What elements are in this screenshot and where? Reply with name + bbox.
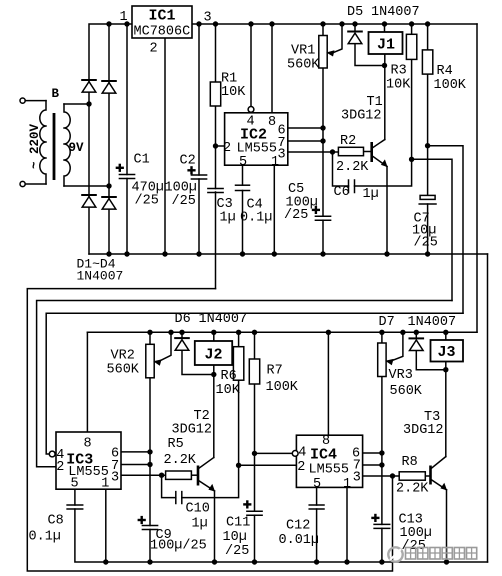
wire: IC3 pin1 to bottom rail [105, 489, 107, 562]
wire: C3 bottom down across ground to feedback run [215, 192, 217, 289]
svg-text:3: 3 [278, 148, 286, 163]
svg-text:/25: /25 [172, 194, 196, 209]
svg-text:2: 2 [150, 42, 158, 57]
potentiometer VR1 wiper arrow [326, 50, 334, 56]
svg-text:D6: D6 [175, 312, 191, 327]
svg-text:B: B [52, 87, 60, 101]
capacitor C1 470u/25 [119, 174, 134, 176]
wire: bridge right leg [108, 24, 110, 254]
wire: trigger row into IC4 pin2 [239, 464, 297, 466]
capacitor C2 100u/25 [191, 174, 206, 176]
wire: C5 bottom to ground [322, 220, 324, 254]
transistor T2 emitter lead with arrow [199, 481, 214, 491]
wire: IC2 pin4 lead [250, 24, 252, 106]
svg-text:560K: 560K [390, 384, 423, 399]
resistor R8 2.2K [399, 472, 425, 480]
wire: D5 cathode stub [354, 24, 356, 32]
wire: trigger run from R3/C6 node to right bus [412, 159, 452, 300]
svg-text:10µ: 10µ [223, 530, 247, 545]
potentiometer VR1 560K body [319, 36, 327, 69]
svg-text:R6: R6 [221, 369, 237, 384]
svg-text:/25: /25 [135, 194, 159, 209]
transformer B primary winding [40, 101, 46, 184]
resistor R5 2.2K [166, 471, 192, 479]
wire: C1 leg lower [126, 179, 128, 255]
transistor T1 emitter lead with arrow [373, 157, 387, 167]
wire: J2 bottom to T2 collector [213, 365, 215, 458]
svg-text:8: 8 [268, 115, 276, 130]
svg-text:2.2K: 2.2K [336, 160, 369, 175]
svg-text:10K: 10K [216, 383, 241, 398]
wire: transformer secondary top to bridge [64, 103, 89, 105]
svg-text:3: 3 [353, 471, 361, 486]
wire: VR1 wiper feed [331, 24, 342, 54]
wire: +V rail of bottom section [87, 331, 477, 333]
svg-text:10K: 10K [386, 78, 411, 93]
svg-text:R3: R3 [391, 64, 407, 79]
svg-text:1N4007: 1N4007 [371, 5, 420, 20]
timer IC3 LM555 box [56, 432, 121, 489]
wire: T2 emitter to bottom rail [214, 491, 216, 562]
svg-text:/25: /25 [284, 208, 308, 223]
wire: D6 cathode stub [181, 332, 183, 338]
wire: IC4 pin3 output to R8 [363, 475, 400, 477]
IC3 pin4 reset bubble [49, 451, 55, 457]
wire: VR3 top lead [381, 332, 383, 343]
transistor T3 3DG12 base bar [429, 466, 432, 485]
wire: C6 branch from pin3 node [333, 152, 349, 186]
wire: VR3 wiper feed [390, 332, 403, 361]
relay J1 box [369, 32, 403, 54]
relay J2 box [195, 341, 232, 365]
wire: IC3 pin5 lead to C8 [74, 489, 76, 505]
wire: C10 right plate up to R6 trigger node [182, 465, 239, 497]
svg-text:J2: J2 [205, 346, 223, 363]
wire: R3 top lead [411, 24, 413, 34]
svg-text:R4: R4 [437, 64, 453, 79]
wire: IC3 pin8 lead [86, 332, 88, 432]
transistor T1 3DG12 base bar [370, 142, 373, 162]
wire: J1 coil top lead [384, 24, 386, 32]
svg-text:~ 220V: ~ 220V [28, 123, 42, 169]
svg-text:1µ: 1µ [363, 187, 379, 202]
svg-text:IC1: IC1 [149, 8, 176, 25]
svg-text:IC4: IC4 [310, 447, 337, 464]
wire: feedback loop left run [27, 289, 392, 571]
svg-text:1N4007: 1N4007 [199, 312, 248, 327]
watermark text (CJK approximation) [406, 548, 416, 560]
junction dots (bottom section) [147, 330, 152, 335]
wire: right ground bus [487, 254, 489, 562]
svg-text:1N4007: 1N4007 [77, 269, 124, 284]
svg-text:/25: /25 [414, 236, 438, 251]
wire: D7 cathode stub [415, 332, 417, 338]
wire: R8 to T3 base stub [425, 475, 429, 477]
wire: IC4 pin4 row [255, 452, 293, 454]
svg-text:4: 4 [298, 446, 306, 461]
wire: R7 bottom through pin4 row to C11 [254, 384, 256, 511]
wire: VR1 top lead [322, 24, 324, 36]
svg-text:3DG12: 3DG12 [172, 423, 213, 438]
potentiometer VR3 wiper arrow [385, 359, 393, 365]
wire: C13 bottom to bottom rail [381, 528, 383, 562]
transformer B primary terminal bottom [20, 181, 25, 186]
op-amp/timer IC2 LM555 box [225, 113, 288, 165]
capacitor C6 1u (coupling) [348, 180, 350, 193]
wire: D7 anode to J3 bottom node [416, 351, 446, 370]
wire: IC4 pin8 lead [327, 332, 329, 435]
wire: C12 bottom to bottom rail [316, 509, 318, 562]
diode D1 (upper-left of bridge) [82, 79, 96, 81]
wire: C10 branch from pin3 node [162, 475, 176, 497]
wire: IC2 pin3 output to R2 [288, 151, 339, 153]
svg-text:100µ/25: 100µ/25 [150, 539, 207, 554]
wire: right +V bus down to bottom-section rail [476, 24, 478, 332]
wire: VR2 wiper feed [158, 332, 172, 362]
transistor T3 collector lead [432, 457, 446, 468]
svg-text:C10: C10 [186, 502, 210, 517]
wire: VR3 bottom through IC4 pins 6,7 to C13 [381, 377, 383, 525]
wire: R4 bottom to C7 [427, 74, 429, 195]
wire: D5 anode down and over to J1 bottom node [355, 44, 385, 66]
potentiometer VR2 wiper arrow [153, 359, 161, 365]
resistor R4 100K [422, 50, 432, 74]
capacitor C4 0.1u [236, 184, 250, 186]
svg-text:2: 2 [223, 141, 231, 156]
svg-text:/25: /25 [225, 544, 249, 559]
diode D4 (lower-right of bridge) [102, 196, 116, 198]
transformer B secondary winding 9V [64, 104, 70, 186]
svg-text:3: 3 [111, 471, 119, 486]
wire: R5 to T2 base stub [191, 474, 196, 476]
wire: R3 bottom to C6 output node [411, 59, 413, 159]
svg-text:LM555: LM555 [309, 462, 350, 477]
transistor T1 collector lead [373, 140, 385, 148]
wire: IC2 pin1 to ground [273, 165, 275, 254]
transistor T3 emitter lead with arrow [432, 480, 447, 490]
timer IC4 LM555 box [296, 435, 362, 487]
svg-text:R7: R7 [267, 364, 283, 379]
capacitor C13 100u/25 [374, 523, 390, 525]
regulator IC1 MC7806C box [132, 6, 192, 38]
svg-text:1N4007: 1N4007 [408, 315, 457, 330]
svg-text:C2: C2 [180, 154, 196, 169]
wire: IC2 pin8 lead [271, 24, 273, 113]
wire: IC4 pin6 stub [363, 452, 382, 454]
svg-text:C6: C6 [334, 185, 350, 200]
svg-text:R2: R2 [340, 134, 356, 149]
wire: C11 bottom to bottom rail [254, 515, 256, 562]
svg-text:R8: R8 [402, 455, 418, 470]
wire: J2 coil top lead [213, 332, 215, 341]
wire: J3 coil top lead [445, 332, 447, 340]
wire: IC2 pin5 lead to C4 [242, 165, 244, 185]
wire: R6 bottom to trigger node of IC4 [238, 380, 240, 465]
svg-text:2: 2 [56, 460, 64, 475]
wire: C2 leg lower [198, 179, 200, 254]
svg-text:VR2: VR2 [111, 349, 135, 364]
svg-text:VR1: VR1 [291, 44, 315, 59]
transistor T2 collector lead [199, 458, 214, 469]
watermark logo circle [388, 547, 402, 561]
wire: IC3 pin7 stub [121, 464, 150, 466]
wire: IC3 pin6 stub [121, 451, 150, 453]
svg-text:10K: 10K [221, 85, 246, 100]
wire: VR2 top lead [149, 332, 151, 344]
svg-text:5: 5 [71, 477, 79, 492]
wire: J1 bottom to T1 collector [384, 54, 386, 140]
svg-text:9V: 9V [69, 141, 85, 155]
wire: C4 bottom to ground [242, 191, 244, 255]
capacitor C12 0.01u [309, 504, 324, 506]
wire: C2 leg upper [198, 24, 200, 175]
svg-text:VR3: VR3 [389, 368, 413, 383]
wire: ground rail of top section [89, 253, 488, 255]
svg-text:C1: C1 [134, 153, 150, 168]
svg-text:C8: C8 [48, 514, 64, 529]
wire: VR2 bottom through IC3 pins 6,7 to C9 [149, 378, 151, 526]
svg-text:2.2K: 2.2K [396, 482, 429, 497]
diode D3 (lower-left of bridge) [82, 194, 96, 196]
svg-text:0.1µ: 0.1µ [29, 530, 61, 545]
wire: IC3 pin3 output to R5 [121, 474, 166, 476]
capacitor C7 10u/25 (boxed plate) [420, 195, 435, 199]
svg-text:D5: D5 [347, 5, 363, 20]
wire: R4 top lead [427, 24, 429, 50]
relay J3 box [431, 340, 464, 362]
IC4 pin4 reset bubble [292, 451, 298, 457]
svg-text:8: 8 [84, 437, 92, 452]
svg-text:C12: C12 [286, 519, 310, 534]
svg-text:3DG12: 3DG12 [341, 109, 382, 124]
potentiometer VR2 560K body [146, 344, 154, 378]
diode D2 (upper-right of bridge) [102, 80, 116, 82]
svg-text:R5: R5 [168, 437, 184, 452]
svg-text:1µ: 1µ [220, 211, 236, 226]
diode D7 1N4007 [410, 337, 424, 339]
diode D5 1N4007 [348, 31, 362, 33]
svg-text:D7: D7 [379, 315, 395, 330]
wire: IC4 pin5 lead to C12 [316, 487, 318, 505]
resistor R6 10K [233, 347, 243, 381]
svg-text:560K: 560K [107, 363, 140, 378]
capacitor C9 100u/25 [142, 525, 157, 527]
wire: transformer secondary bottom to bridge [64, 185, 109, 187]
svg-text:5: 5 [313, 477, 321, 492]
svg-text:1µ: 1µ [192, 517, 208, 532]
wire: C7 bottom to ground [427, 204, 429, 254]
wire: J3 bottom to T3 collector [445, 362, 447, 457]
diode D6 1N4007 [175, 337, 189, 339]
capacitor C3 1u [208, 188, 223, 190]
svg-text:100K: 100K [434, 78, 467, 93]
svg-text:2: 2 [297, 460, 305, 475]
svg-text:0.1µ: 0.1µ [240, 211, 272, 226]
resistor R3 10K [406, 34, 416, 59]
wire: IC2 pin6 stub [288, 127, 323, 129]
transformer B core [53, 113, 56, 180]
wire: R1 top lead [215, 24, 217, 82]
IC2 pin4 reset bubble [248, 107, 254, 113]
transformer B primary terminal top [20, 98, 25, 103]
junction dots (top section) [106, 21, 111, 26]
svg-text:J3: J3 [438, 344, 456, 361]
svg-text:100K: 100K [266, 380, 299, 395]
svg-text:3DG12: 3DG12 [403, 423, 444, 438]
wire: IC4 pin7 stub [363, 464, 382, 466]
svg-text:1: 1 [343, 477, 351, 492]
wire: T1 emitter to ground [386, 167, 388, 255]
svg-text:1: 1 [120, 10, 128, 25]
wire: IC1 pin2 to ground [164, 38, 166, 254]
svg-text:3: 3 [204, 11, 212, 26]
svg-text:2.2K: 2.2K [164, 453, 197, 468]
svg-text:0.01µ: 0.01µ [279, 533, 320, 548]
wire: R2 to T1 base stub [364, 151, 371, 153]
svg-text:MC7806C: MC7806C [134, 25, 191, 40]
potentiometer VR3 560K body [378, 343, 386, 377]
capacitor C8 0.1u [67, 504, 83, 506]
wire: C9 bottom to bottom rail [149, 530, 151, 563]
svg-text:C11: C11 [226, 516, 250, 531]
svg-text:1: 1 [101, 477, 109, 492]
wire: C8 bottom to bottom rail corner [75, 509, 488, 562]
resistor R1 10K [210, 82, 220, 106]
wire: +V top rail right of IC1 to right bus corner [192, 23, 477, 25]
svg-text:J1: J1 [377, 37, 395, 54]
svg-text:5: 5 [239, 155, 247, 170]
transistor T2 3DG12 base bar [197, 466, 200, 486]
wire: C6 right plate to R3 node [355, 159, 412, 186]
wire: IC2 pin7 stub [288, 140, 323, 142]
wire: reset run from R4/C7 node to right bus [428, 146, 463, 314]
wire: R1 bottom to pin2 node and C3 [215, 106, 217, 189]
wire: R6 top lead [238, 332, 240, 346]
wire: +V top rail left segment [89, 24, 132, 254]
capacitor C11 10u/25 [247, 510, 262, 512]
wire: trigger line to IC3 pin2 [37, 301, 452, 467]
resistor R7 100K [249, 359, 259, 384]
wire: R7 top lead [254, 332, 256, 359]
wire: IC4 pin1 to bottom rail [346, 487, 348, 562]
wire: D6 anode to J2 bottom node [182, 351, 214, 375]
wire: VR1 bottom through pins 6,7 to C5 [322, 68, 324, 216]
resistor R2 2.2K [338, 147, 363, 155]
capacitor C5 100u/25 [315, 215, 330, 217]
capacitor C10 1u (coupling) [175, 492, 177, 504]
wire: IC2 pin2 stub [216, 145, 225, 147]
wire: reset line to IC3 pin4 [46, 313, 463, 454]
wire: C1 leg upper [126, 24, 128, 175]
svg-text:560K: 560K [287, 58, 320, 73]
wire: T3 emitter to bottom rail [446, 490, 448, 562]
